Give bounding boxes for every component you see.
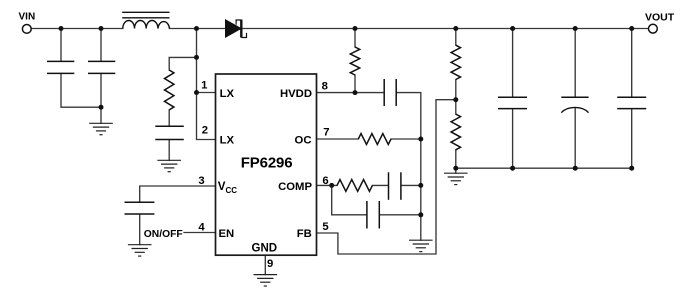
svg-text:FB: FB xyxy=(297,228,312,240)
svg-text:2: 2 xyxy=(202,125,208,137)
svg-text:LX: LX xyxy=(220,88,235,100)
svg-text:8: 8 xyxy=(322,80,328,92)
svg-text:9: 9 xyxy=(267,258,273,270)
svg-text:4: 4 xyxy=(198,221,205,233)
svg-text:VIN: VIN xyxy=(19,11,36,22)
svg-text:5: 5 xyxy=(322,221,328,233)
svg-text:ON/OFF: ON/OFF xyxy=(144,229,183,240)
svg-text:3: 3 xyxy=(198,175,204,187)
svg-text:1: 1 xyxy=(201,80,207,92)
svg-text:EN: EN xyxy=(219,228,235,240)
svg-text:OC: OC xyxy=(295,135,312,147)
svg-text:VOUT: VOUT xyxy=(645,12,675,24)
svg-text:HVDD: HVDD xyxy=(280,88,312,100)
svg-text:COMP: COMP xyxy=(278,181,312,193)
svg-text:GND: GND xyxy=(252,242,278,254)
svg-text:LX: LX xyxy=(220,135,235,147)
svg-text:6: 6 xyxy=(322,175,328,187)
svg-text:7: 7 xyxy=(323,126,329,138)
svg-text:FP6296: FP6296 xyxy=(241,154,293,171)
